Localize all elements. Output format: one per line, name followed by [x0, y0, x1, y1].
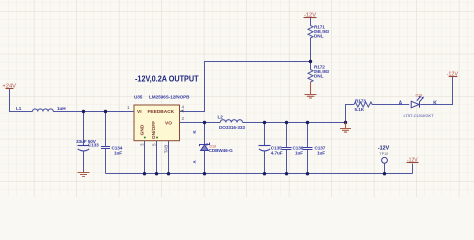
svg-text:ON/OFF: ON/OFF	[151, 121, 157, 139]
svg-text:4.7uF: 4.7uF	[271, 151, 283, 156]
svg-text:5: 5	[152, 143, 157, 146]
svg-text:GND: GND	[140, 124, 146, 135]
svg-text:1uF: 1uF	[317, 151, 325, 156]
svg-text:U35: U35	[134, 95, 143, 100]
svg-text:K: K	[433, 101, 437, 107]
svg-text:L1: L1	[16, 106, 22, 111]
svg-text:FEEDBACK: FEEDBACK	[148, 109, 175, 115]
svg-text:+24V: +24V	[2, 83, 16, 89]
svg-text:C133: C133	[88, 142, 99, 147]
svg-text:1uF: 1uF	[295, 151, 303, 156]
svg-text:R173: R173	[355, 98, 366, 103]
svg-text:-12V: -12V	[407, 158, 418, 164]
svg-text:VI: VI	[137, 109, 142, 115]
svg-text:L2: L2	[218, 115, 224, 120]
svg-text:TAB: TAB	[164, 145, 169, 154]
svg-text:D16: D16	[210, 144, 217, 148]
svg-text:2: 2	[182, 116, 185, 121]
svg-text:DNL: DNL	[314, 74, 324, 79]
svg-text:1uH: 1uH	[57, 106, 66, 111]
svg-text:TP10: TP10	[380, 152, 389, 156]
svg-text:5.1K: 5.1K	[355, 107, 365, 112]
svg-text:4: 4	[182, 105, 185, 110]
svg-text:CDBW46-G: CDBW46-G	[209, 148, 233, 153]
svg-text:LTST-C191KGKT: LTST-C191KGKT	[404, 113, 435, 118]
svg-text:-12V,0.2A OUTPUT: -12V,0.2A OUTPUT	[135, 73, 199, 83]
svg-text:VO: VO	[165, 120, 172, 126]
svg-text:DNL: DNL	[314, 34, 324, 39]
svg-text:-12V: -12V	[378, 145, 390, 151]
svg-text:3: 3	[140, 143, 145, 146]
svg-text:A: A	[399, 101, 403, 107]
svg-text:-12V: -12V	[447, 72, 459, 78]
svg-text:1uF: 1uF	[114, 151, 122, 156]
svg-text:1: 1	[127, 105, 130, 110]
svg-text:LM2596S-12/NOPB: LM2596S-12/NOPB	[149, 95, 190, 100]
svg-text:-12V: -12V	[304, 13, 316, 19]
svg-text:DO3316-333: DO3316-333	[219, 125, 245, 130]
